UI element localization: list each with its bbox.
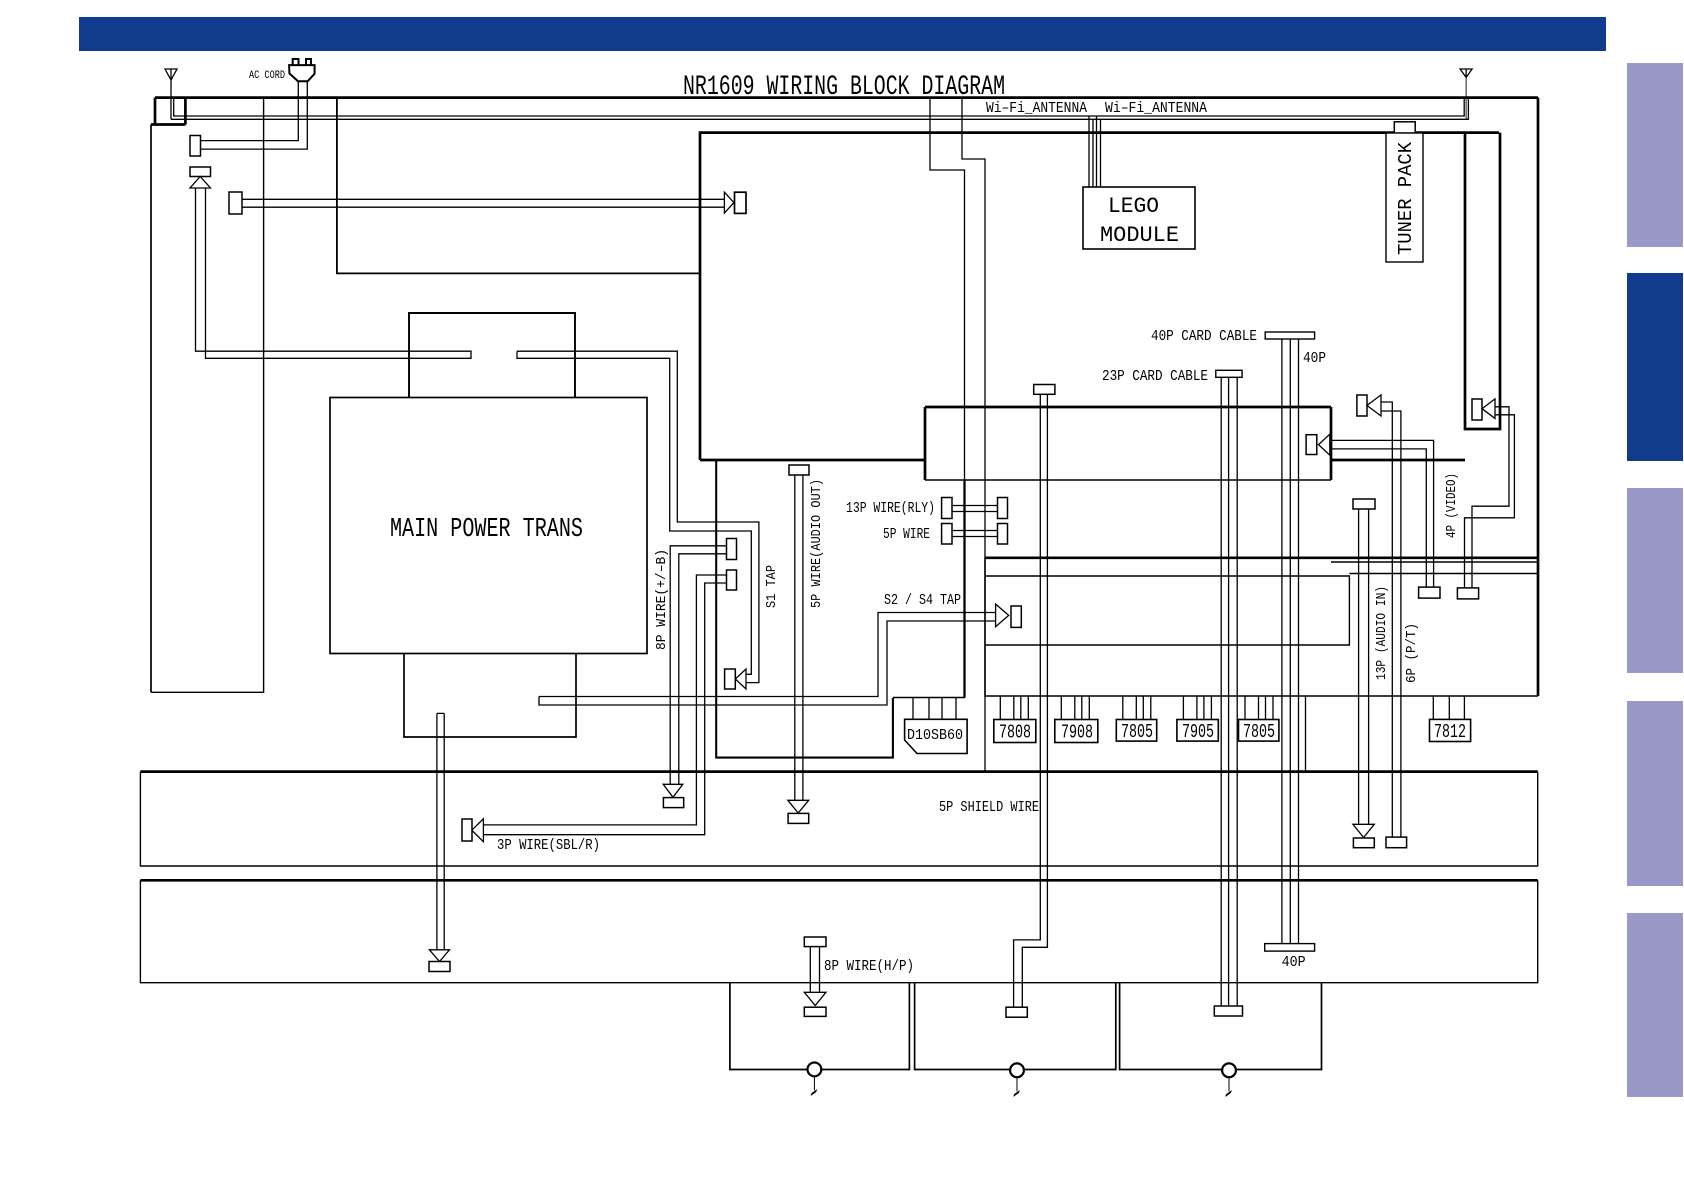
- 8P wire(H/P) top connector: [804, 937, 826, 947]
- svg-text:4P (VIDEO): 4P (VIDEO): [1444, 473, 1460, 538]
- frame left edge: [150, 125, 152, 693]
- middle long box: [925, 479, 1331, 481]
- sidebar tab 2: [1627, 273, 1683, 461]
- 13P WIRE(RLY) connector left: [942, 498, 952, 519]
- svg-text:5P WIRE(AUDIO OUT): 5P WIRE(AUDIO OUT): [809, 479, 825, 608]
- D10SB60 pins: [913, 697, 956, 720]
- svg-text:MAIN POWER TRANS: MAIN POWER TRANS: [390, 515, 583, 545]
- antenna left lead: [170, 80, 172, 119]
- regulator 7808: [994, 720, 1036, 743]
- AC cord wire 2: [201, 82, 308, 150]
- bottom box 2: [915, 983, 1116, 1070]
- frame top edge: [155, 96, 1538, 99]
- svg-text:13P WIRE(RLY): 13P WIRE(RLY): [846, 500, 935, 517]
- wifi antenna wire upper: [174, 98, 1465, 116]
- sidebar tab 5: [1627, 913, 1683, 1097]
- band 2: [140, 879, 1537, 882]
- connector in center box: [735, 192, 747, 213]
- regulator 7908: [1055, 720, 1098, 743]
- regulator 7908 pins: [1061, 696, 1089, 720]
- D10SB60 bridge rectifier: [905, 719, 968, 753]
- lower wide box: [985, 556, 1538, 559]
- transformer primary cable left: [196, 188, 472, 358]
- svg-text:Wi–Fi_ANTENNA: Wi–Fi_ANTENNA: [1105, 100, 1207, 117]
- S2/S4 arrow: [996, 604, 1009, 627]
- D10SB60 bus wire: [893, 697, 965, 699]
- tuner 4P end connector: [1457, 588, 1478, 599]
- svg-text:23P CARD CABLE: 23P CARD CABLE: [1102, 368, 1208, 385]
- arrow into center box: [724, 192, 734, 213]
- 8P wire(H/P) arrow: [804, 992, 826, 1005]
- 13P audio-in cable: [1359, 509, 1369, 825]
- lower right bus line 1: [1331, 561, 1538, 563]
- TUNER PACK connector stub: [1394, 122, 1415, 133]
- 3P wire end connector: [462, 819, 472, 841]
- 8P wire(+/-B) down cable: [670, 546, 726, 784]
- transformer bottom end connector: [429, 962, 450, 972]
- 5P wire(audio out) arrow: [788, 800, 809, 813]
- svg-text:5P WIRE: 5P WIRE: [883, 526, 930, 543]
- wire L from top frame to center box: [337, 98, 700, 274]
- svg-text:AC CORD: AC CORD: [249, 70, 285, 82]
- S1 TAP connector: [725, 669, 736, 689]
- power cable to front box: [242, 199, 724, 207]
- regulator 7812 pins: [1433, 696, 1464, 719]
- 13P audio-in top connector: [1353, 499, 1375, 509]
- regulator 7808 pins: [1000, 696, 1028, 720]
- AC inlet connector: [190, 136, 201, 157]
- 4P video connector in box: [1306, 435, 1317, 455]
- transformer bottom cable: [437, 713, 444, 950]
- short wire right of 40P: [1305, 696, 1307, 772]
- frame right edge: [1537, 98, 1540, 696]
- 8P wire(+/-B) end connector: [663, 798, 683, 808]
- S1 TAP arrow: [735, 669, 746, 689]
- svg-text:7908: 7908: [1061, 722, 1093, 744]
- bottom box 1: [730, 983, 910, 1070]
- 23P card cable end connector: [1214, 1006, 1242, 1016]
- svg-text:TUNER PACK: TUNER PACK: [1395, 141, 1417, 255]
- regulator 7805a: [1116, 720, 1156, 742]
- 6P p/t cable: [1381, 402, 1401, 837]
- frame top-left notch box: [151, 98, 185, 125]
- tuner module tall box: [1465, 133, 1500, 429]
- regulator 7805a pins: [1123, 696, 1151, 720]
- S1 connector 1: [727, 539, 737, 560]
- 13P WIRE(RLY) pins: [952, 506, 998, 512]
- lower right bus line 2: [1349, 573, 1538, 575]
- svg-text:7905: 7905: [1182, 721, 1214, 743]
- 4P video arrow: [1319, 434, 1330, 455]
- 13P WIRE(RLY) connector right: [998, 498, 1008, 519]
- 3P wire arrow: [472, 819, 484, 842]
- tuner 4P cable: [1465, 407, 1515, 588]
- 6P p/t arrow: [1367, 395, 1381, 416]
- svg-text:LEGO: LEGO: [1108, 194, 1159, 219]
- 6P p/t arrow connector: [1357, 395, 1367, 416]
- svg-text:D10SB60: D10SB60: [907, 727, 963, 744]
- 6P p/t end connector: [1386, 837, 1407, 848]
- left tall box: [151, 98, 264, 693]
- svg-text:7808: 7808: [999, 722, 1031, 744]
- 8P wire(H/P) end connector: [804, 1007, 826, 1016]
- S2/S4 end connector: [1011, 606, 1021, 627]
- bottom box1 terminal circle: [808, 1063, 822, 1077]
- transformer bottom arrow: [429, 950, 449, 962]
- band 1 (5P shield wire band): [140, 770, 1537, 773]
- thick drop wire to D10 bus: [963, 481, 965, 698]
- 13P audio-in arrow: [1353, 824, 1374, 837]
- svg-text:6P (P/T): 6P (P/T): [1404, 623, 1420, 683]
- lower inner thin box: [985, 576, 1349, 645]
- 5P wire(audio out) end connector: [788, 813, 809, 823]
- 4P video cable: [1331, 440, 1434, 587]
- 23P card cable top bar: [1216, 370, 1242, 377]
- center box (front PCB): [700, 133, 1499, 460]
- svg-text:8P WIRE(+/–B): 8P WIRE(+/–B): [654, 549, 670, 650]
- 8P wire(+/-B) up-arrow connector: [190, 167, 211, 177]
- regulator 7805b: [1239, 720, 1279, 742]
- AC plug: [293, 59, 311, 65]
- 23P card cable wires: [1221, 377, 1237, 1006]
- bottom box2 terminal circle: [1010, 1063, 1024, 1077]
- svg-text:S1 TAP: S1 TAP: [764, 565, 780, 608]
- audio-in card cable end connector: [1006, 1007, 1027, 1017]
- top blue header bar: [79, 17, 1606, 51]
- svg-text:7812: 7812: [1434, 721, 1466, 743]
- TUNER PACK label box: [1386, 133, 1423, 262]
- antenna left: [165, 69, 177, 80]
- AC cord wire 1: [201, 82, 299, 141]
- regulator 7805b pins: [1245, 696, 1273, 720]
- 5P WIRE pins: [952, 531, 998, 537]
- bottom box 3: [1120, 983, 1322, 1070]
- svg-text:3P WIRE(SBL/R): 3P WIRE(SBL/R): [497, 837, 600, 854]
- wifi cable down A: [930, 98, 965, 481]
- svg-text:5P SHIELD WIRE: 5P SHIELD WIRE: [939, 799, 1039, 816]
- svg-text:40P: 40P: [1303, 350, 1326, 367]
- 5P WIRE connector left: [942, 524, 952, 545]
- svg-text:40P CARD CABLE: 40P CARD CABLE: [1151, 328, 1257, 345]
- svg-text:8P WIRE(H/P): 8P WIRE(H/P): [824, 958, 914, 975]
- svg-text:S2 / S4 TAP: S2 / S4 TAP: [884, 592, 961, 609]
- svg-text:Wi–Fi_ANTENNA: Wi–Fi_ANTENNA: [986, 100, 1087, 117]
- S1 connector 2: [727, 570, 737, 590]
- 5P wire(audio out) top connector: [789, 465, 809, 475]
- 8P wire(+/-B) down arrow: [663, 784, 683, 797]
- svg-text:MODULE: MODULE: [1100, 223, 1179, 248]
- 4P video end connector: [1419, 587, 1440, 598]
- svg-text:40P: 40P: [1282, 954, 1306, 971]
- transformer top cover box: [409, 313, 575, 398]
- 40P card cable top bar: [1265, 332, 1314, 339]
- regulator 7812: [1430, 719, 1471, 741]
- sidebar tab 1: [1627, 63, 1683, 247]
- svg-text:7805: 7805: [1121, 721, 1153, 743]
- bottom box3 terminal circle: [1222, 1063, 1236, 1077]
- antenna right lead: [1465, 77, 1467, 120]
- svg-text:13P (AUDIO IN): 13P (AUDIO IN): [1374, 586, 1390, 680]
- audio-in card cable: [1014, 394, 1048, 1007]
- thick stub right of middle box: [1331, 459, 1465, 462]
- 8P wire(H/P) cable: [810, 947, 819, 993]
- 13P audio-in end connector: [1353, 838, 1374, 848]
- transformer primary cable right: [517, 351, 759, 682]
- S2/S4 TAP cable: [539, 613, 996, 706]
- wire from center box bottom via U-turn to D10 bus: [715, 460, 893, 759]
- regulator 7905: [1177, 720, 1218, 742]
- transformer bottom box: [404, 654, 576, 738]
- sidebar tab 4: [1627, 701, 1683, 886]
- LEGO MODULE box: [1083, 187, 1195, 249]
- tuner 4P arrow: [1482, 399, 1495, 419]
- sidebar tab 3: [1627, 488, 1683, 673]
- wifi antenna wire lower: [171, 99, 1468, 119]
- tuner 4P connector: [1472, 399, 1482, 420]
- 5P wire(audio out) cable: [795, 475, 803, 800]
- connector on left box: [229, 192, 242, 214]
- 40P card cable wires: [1282, 339, 1299, 944]
- wifi cable down B: [962, 98, 985, 772]
- regulator 7905 pins: [1183, 696, 1211, 720]
- 5P WIRE connector right: [998, 524, 1008, 545]
- audio-in card cable top connector: [1034, 385, 1055, 395]
- antenna right: [1460, 69, 1472, 77]
- lego antenna drop wires: [1089, 116, 1101, 187]
- MAIN POWER TRANS box: [330, 398, 647, 654]
- 40P card cable bottom bar: [1265, 944, 1315, 952]
- svg-text:7805: 7805: [1243, 721, 1275, 743]
- 3P wire(SBL/R) cable: [483, 575, 726, 835]
